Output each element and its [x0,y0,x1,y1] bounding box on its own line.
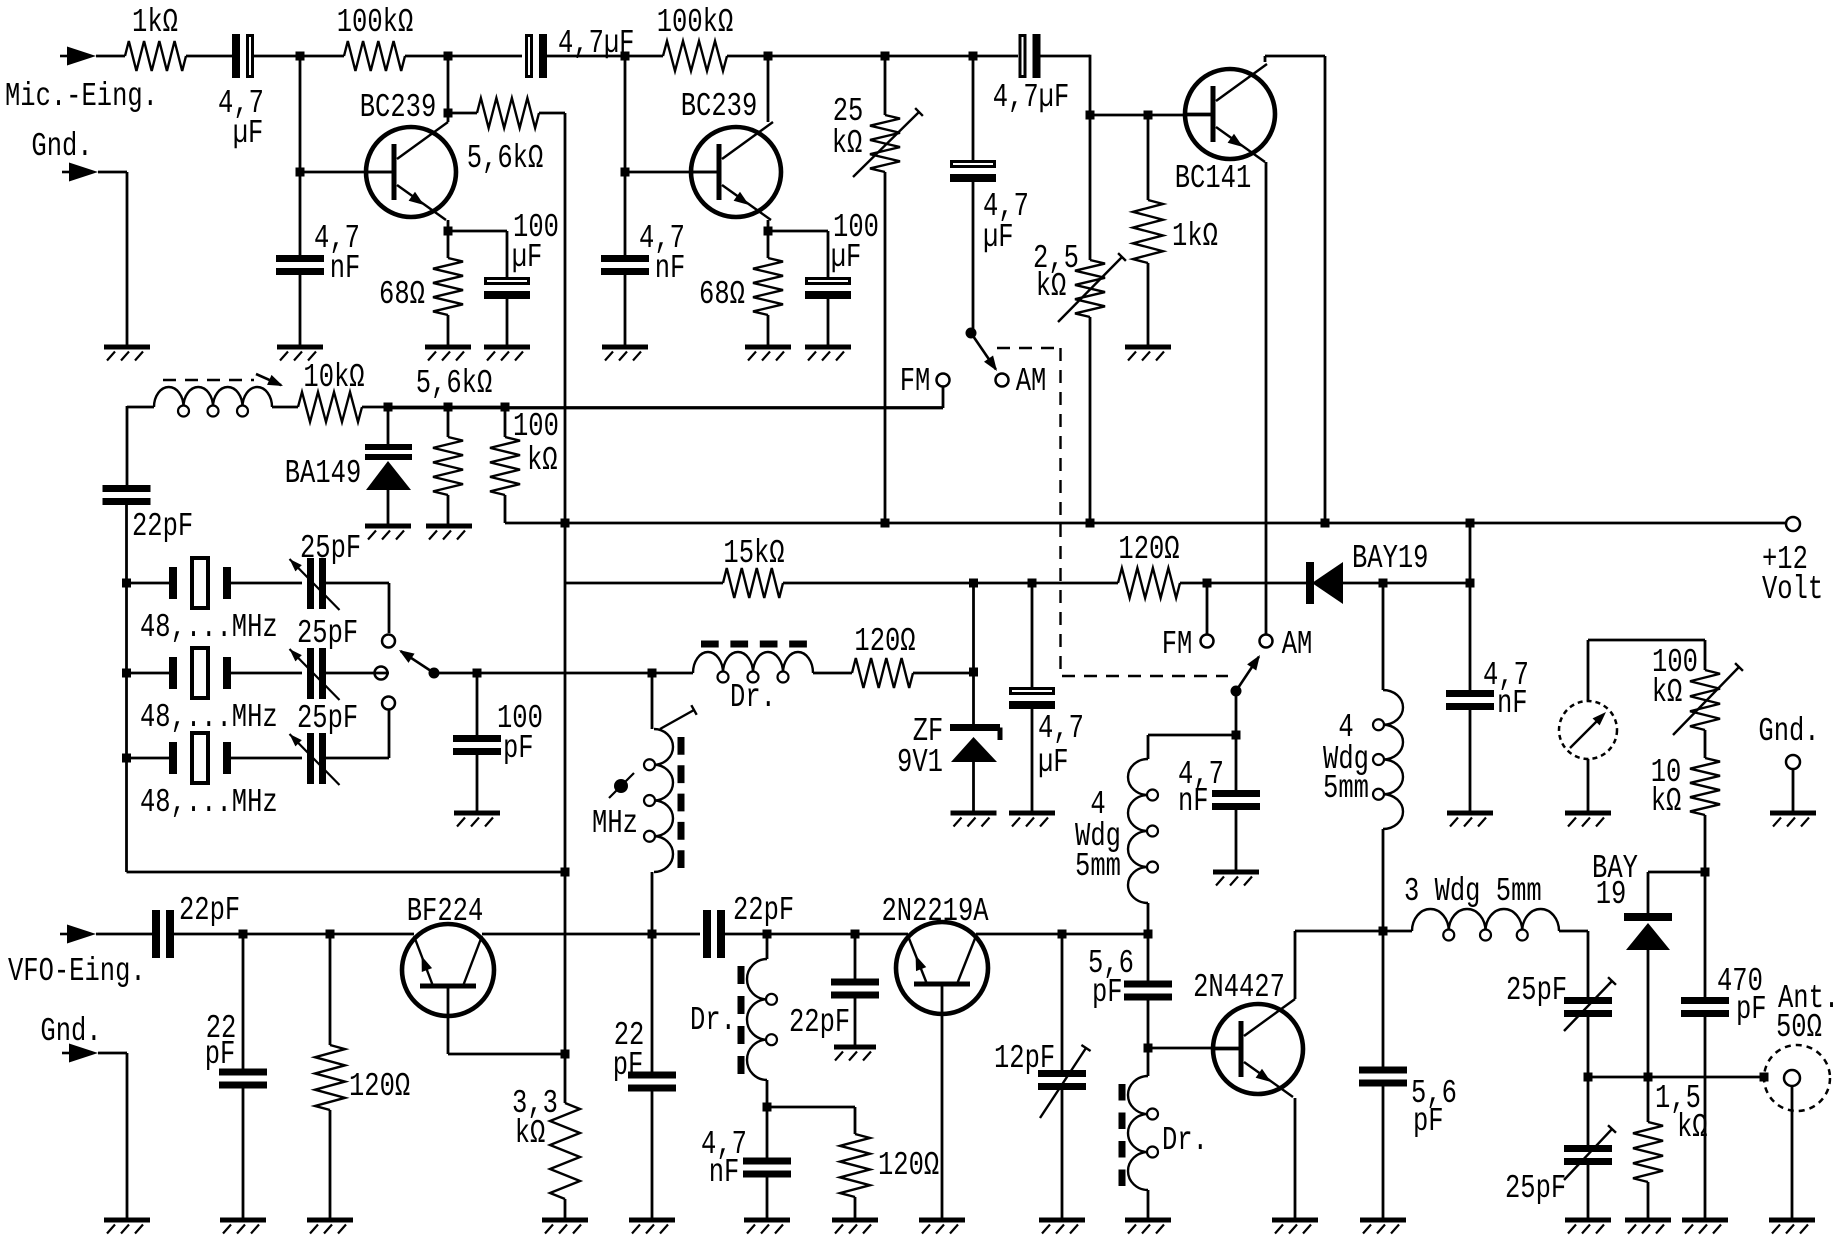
junction zener top [969,579,978,588]
trimmer capacitor 25pF #2 [290,648,340,700]
label 22 pF mixer [613,1016,645,1084]
junction rail pot2.5k [1086,519,1095,528]
label 1kΩ [132,3,178,41]
transistor BC239 second [691,122,781,220]
capacitor 22pF 2219 input [831,979,879,999]
wire crystal row2 mid [231,672,302,675]
label 5,6kΩ mod [416,364,492,402]
wire 4.7nF filter top [1469,523,1472,691]
label 100kΩ second [657,3,733,41]
wire 2219 collector right [976,933,1148,936]
capacitor 4,7µF interstage (electrolytic) [527,34,548,78]
label 68Ω stage2 [699,275,745,313]
wire 120bf bottom [329,1110,332,1220]
capacitor 22pF vfo coupling [152,910,174,958]
wire base line 1 vertical [299,56,302,255]
wire meter top [1588,640,1705,701]
svg-text:100kΩ: 100kΩ [337,3,413,41]
label ZF 9V1 [897,712,943,781]
junction FM contact 2 feed [1203,579,1212,588]
svg-text:19: 19 [1596,875,1627,913]
label 4 Wdg 5mm first [1075,785,1121,885]
label Ant. 50Ω [1776,979,1838,1046]
wire driver feed left [1148,734,1236,737]
wire 4.7nF bf top [766,1107,769,1158]
link dashed ganged to 10k [163,374,283,386]
svg-text:22pF: 22pF [789,1003,850,1041]
wire choke1 to 120 [813,672,852,675]
label FM first [900,362,931,400]
ground 12pF [1039,1220,1085,1234]
label 10 kΩ meter [1651,753,1682,820]
svg-text:pF: pF [1736,990,1767,1028]
ground 25pF output [1565,1220,1611,1234]
wire feedback horizontal [127,871,566,874]
wire FM2 contact up [1206,583,1209,635]
svg-text:5mm: 5mm [1323,769,1369,807]
svg-text:Dr.: Dr. [730,678,776,716]
wire C4.7nF 2 to ground [624,275,627,347]
wire crystal row1 mid [231,582,302,585]
junction antenna [1760,1073,1769,1082]
junction feedback top [561,868,570,877]
wire antenna line [1588,1076,1764,1079]
label AM first [1016,362,1047,400]
svg-text:4,7µF: 4,7µF [993,78,1069,116]
svg-text:Dr.: Dr. [1162,1121,1208,1159]
label 4,7 nF buffer [701,1125,747,1191]
ground 5,6k mod [426,526,472,540]
svg-text:AM: AM [1282,625,1313,663]
svg-text:100: 100 [513,407,559,445]
junction zener node [969,668,978,677]
svg-text:3 Wdg 5mm: 3 Wdg 5mm [1404,872,1542,910]
label 4,7 µF osc supply [1038,709,1084,781]
junction antenna line left [1584,1073,1593,1082]
wire 5.6pF out bottom [1382,1082,1385,1220]
resistor 5,6kΩ collector1 [477,98,539,128]
wire 1k to ground [1147,263,1150,347]
wire BC141 collector up and over [1265,56,1325,523]
wire meter bottom [1587,759,1590,813]
wire zener vertical [972,583,975,724]
label 25pF #3 [297,699,358,737]
ground 22pF shunt [220,1220,266,1234]
wire switch common [434,672,693,675]
svg-text:BC239: BC239 [681,87,757,125]
crystal 48 MHz #2 [169,648,231,698]
label +12 Volt [1762,540,1823,608]
resistor 1,5kΩ detector [1633,1077,1663,1220]
junction 120Ω bf [326,930,335,939]
label 1kΩ BC141 [1172,217,1218,255]
inductor 3 Wdg 5mm [1412,909,1559,940]
label 4,7 µF input [218,84,264,152]
meter RF indicator [1559,701,1617,759]
wire vfo to 22pF [96,933,152,936]
svg-text:5mm: 5mm [1075,847,1121,885]
label 25pF #2 [297,614,358,652]
junction node base divider 1 [296,52,305,61]
wire mod line left corner [127,406,154,409]
trimmer capacitor 25pF output top [1564,977,1616,1031]
label BC239 second [681,87,757,125]
potentiometer 2,5kΩ [1058,253,1126,322]
label 25pF output bottom [1505,1169,1566,1207]
svg-text:22pF: 22pF [733,891,794,929]
wire 4.7uF osc bottom [1031,704,1034,813]
svg-text:nF: nF [709,1153,740,1191]
wire feedback bus [564,872,567,1054]
svg-text:48,...MHz: 48,...MHz [140,783,278,821]
label 22pF oscillator [132,507,193,545]
svg-text:BA149: BA149 [285,454,361,492]
ground 3.3k [542,1220,588,1234]
capacitor 22pF vfo shunt [219,1069,267,1089]
svg-text:BC239: BC239 [360,88,436,126]
wire 68Ω 2 to ground [767,315,770,347]
svg-text:Dr.: Dr. [690,1001,736,1039]
label 10kΩ [303,358,364,396]
ground 1.5k [1625,1220,1671,1234]
wire 22pF to BF224 [174,933,414,936]
wire collector 1 up [447,56,450,122]
wire 5.6pF top [1147,934,1150,981]
contact FM second [1201,635,1214,648]
wire diode to filter [1383,582,1470,585]
wire 3wdg to trimmers [1559,931,1588,998]
ground 120bf [307,1220,353,1234]
junction mod 100k [501,403,510,412]
svg-text:pF: pF [503,729,534,767]
wire MHz coil bottom [651,872,654,933]
ground BA149 [365,526,411,540]
resistor 10kΩ meter [1690,758,1720,815]
contact FM first [937,374,950,387]
junction 2N4427 base node [1144,1044,1153,1053]
label 100kΩ first [337,3,413,41]
wire BC141 emitter down [1265,162,1268,635]
junction base 2 [621,168,630,177]
wire pot to 10k [1704,730,1707,758]
inductor MHz tuned coil [644,729,681,872]
label 120Ω osc supply [854,622,915,660]
svg-text:BAY19: BAY19 [1352,539,1428,577]
switch arm FM/AM first [966,328,998,372]
svg-text:68Ω: 68Ω [699,275,745,313]
svg-text:48,...MHz: 48,...MHz [140,698,278,736]
trimmer capacitor 12pF [1038,1045,1091,1118]
capacitor 4,7nF stage2 [601,255,649,275]
wire 470pF down [1704,1013,1707,1220]
label 120Ω bf [349,1067,410,1105]
svg-text:µF: µF [983,218,1014,256]
label 4,7 nF stage2 [639,219,685,287]
label Dr. choke 1 [730,678,776,716]
wire crystal row2 right [326,672,389,675]
resistor 15kΩ [723,568,783,598]
contact crystal select 2 [375,667,388,680]
junction MHz coil tap [648,669,657,678]
junction emitter 2 [764,227,773,236]
contact crystal select 3 [382,697,395,710]
resistor 100kΩ first [344,41,405,71]
wire emitter 1 to bypass cap [448,231,507,279]
svg-text:1kΩ: 1kΩ [1172,217,1218,255]
wire 4427 emitter [1294,1098,1297,1220]
wire emitter 2 to bypass cap [768,231,828,279]
svg-text:4,7: 4,7 [1038,709,1084,747]
wire +12V rail [505,522,1786,525]
trimmer capacitor 25pF #3 [290,733,340,785]
capacitor 4,7nF driver [1212,790,1260,810]
wire pot 25k top [884,56,887,115]
resistor 120Ω buffer [840,1107,870,1220]
label 100 kΩ mod [513,407,559,479]
junction pot 25k top [881,52,890,61]
svg-text:FM: FM [1162,625,1193,663]
junction collector resistor tap [444,109,453,118]
svg-text:25pF: 25pF [300,529,361,567]
wire 22pF 2219 bottom [854,994,857,1046]
diode BAY 19 detector [1624,913,1672,1077]
terminal Gnd right [1786,755,1800,769]
wire 120Ω to diode [1180,582,1306,585]
svg-text:kΩ: kΩ [1036,267,1067,305]
diode zener ZF 9V1 [950,728,1000,814]
junction base BC141 feed [1086,111,1095,120]
svg-text:µF: µF [831,238,862,276]
svg-text:22pF: 22pF [132,507,193,545]
junction collector tap 2 [764,52,773,61]
wire choke2 to 120 [767,1106,855,1109]
transistor 2N4427 [1213,999,1303,1097]
label VFO-Eing. [8,952,146,990]
label Gnd. right [1758,712,1819,750]
ground zener [951,813,997,827]
wire C4.7nF to ground 1 [299,275,302,347]
switch arm FM/AM second [1231,655,1261,697]
svg-text:10kΩ: 10kΩ [303,358,364,396]
capacitor 100µF stage2 (electrolytic) [805,279,851,300]
capacitor 470pF [1681,997,1729,1017]
wire base line 2 vertical [624,56,627,255]
wire 4427 collector [1295,931,1383,999]
label 5,6 pF coupling [1088,944,1134,1011]
svg-text:MHz: MHz [592,804,638,842]
transistor BC141 [1185,64,1275,162]
svg-text:68Ω: 68Ω [379,275,425,313]
label BF224 [407,892,483,930]
svg-text:pF: pF [205,1035,236,1073]
inductor 4 Wdg 5mm second [1373,690,1403,829]
label 5,6 pF output [1411,1074,1457,1140]
junction 1k tap [1144,111,1153,120]
capacitor 4,7µF modulator (electrolytic) [950,162,996,183]
junction rail 5.6k feed [561,519,570,528]
resistor 10kΩ [298,392,362,422]
ground 68Ω stage2 [745,347,791,361]
wire row3 to contact [388,711,391,759]
svg-text:2N4427: 2N4427 [1193,968,1285,1006]
wire gnd mic [98,172,127,347]
wire 4.7uF osc top [1031,583,1034,688]
wire choke2 top [766,934,769,959]
wire R 100k second to C 4.7uF third [727,55,1018,58]
svg-text:50Ω: 50Ω [1776,1008,1822,1046]
wire coil2 bottom [1382,829,1385,933]
svg-text:100kΩ: 100kΩ [657,3,733,41]
junction 4.7uF osc top [1028,579,1037,588]
svg-text:22pF: 22pF [179,891,240,929]
svg-text:25pF: 25pF [297,699,358,737]
wire FM contact to modulation line [388,387,943,409]
wire crystal row1 left [127,582,170,585]
svg-text:12pF: 12pF [994,1039,1055,1077]
ground meter [1565,813,1611,827]
svg-text:FM: FM [900,362,931,400]
inductor Dr. choke 1 [693,644,813,683]
wire 10k to junction [362,406,505,409]
label 22pF interstage bottom [733,891,794,929]
wire corner to pot 2.5k [1089,115,1092,260]
label Dr. choke 2 [690,1001,736,1039]
svg-text:Volt: Volt [1762,570,1823,608]
ground 22pF 2219 small [834,1047,876,1061]
wire BF224 base down [448,986,565,1054]
link dashed switch coupling [997,348,1228,676]
wire base 4427 [1148,1047,1241,1050]
label 100 kΩ meter [1652,643,1698,711]
label 1,5 kΩ [1655,1079,1708,1146]
capacitor 4,7µF third (electrolytic) [1020,34,1041,78]
svg-text:Gnd.: Gnd. [31,127,92,165]
svg-text:Gnd.: Gnd. [1758,712,1819,750]
wire 100µF 2 to ground [827,296,830,347]
svg-text:AM: AM [1016,362,1047,400]
junction detector tap antenna [1644,1073,1653,1082]
label 4,7µF interstage [558,24,634,62]
capacitor 100pF [453,735,501,755]
junction 12pF tap [1058,930,1067,939]
label 48 MHz #1 [140,608,278,646]
svg-text:kΩ: kΩ [1677,1108,1708,1146]
wire osc left bus [125,501,128,872]
svg-text:kΩ: kΩ [1652,673,1683,711]
wire 4.7nF filter bottom [1469,706,1472,813]
ground 4.7uF osc [1009,813,1055,827]
ground stage1 base cap [277,347,323,361]
ground stage2 base cap [602,347,648,361]
svg-text:µF: µF [233,114,264,152]
wire gnd right [1792,769,1795,813]
label Gnd. vfo [40,1012,101,1050]
junction detector out [1644,1073,1653,1082]
junction coil 4wdg2 top [1379,579,1388,588]
label 15kΩ [723,534,784,572]
capacitor 4,7nF rail filter [1446,690,1494,710]
wire R100k to C 4.7uF interstage [405,55,522,58]
wire mod line vertical [126,406,129,488]
resistor 100kΩ mod [490,407,520,523]
junction node base divider 2 [621,52,630,61]
wire base BC141 [1090,114,1213,117]
label 4 Wdg 5mm second [1323,708,1369,807]
wire 68Ω to ground [447,315,450,347]
wire crystal row1 right [326,582,389,585]
wire 100pF bottom [476,751,479,813]
trimmer capacitor 25pF #1 [290,558,340,610]
svg-text:BC141: BC141 [1175,159,1251,197]
resistor 1kΩ [125,41,186,71]
junction 100pF tap [473,669,482,678]
wire crystal row2 left [127,672,170,675]
terminal Gnd mic [62,163,98,182]
junction detector node [1701,868,1710,877]
svg-text:25pF: 25pF [1505,1169,1566,1207]
wire Dr3 bottom [1147,1190,1150,1220]
svg-text:15kΩ: 15kΩ [723,534,784,572]
junction rail BC141 collector [1321,519,1330,528]
wire 15k to zener [783,582,1118,585]
wire 22pF shunt bottom [242,1084,245,1220]
svg-text:nF: nF [330,249,361,287]
junction crystal row3 [122,754,131,763]
label 4,7µF third [993,78,1069,116]
wire 22pF 2219 top [854,934,857,979]
wire 5.6pF bottom [1147,996,1150,1048]
wire crystal row3 right [326,757,389,760]
input terminal Mic.-Eing. [60,47,96,66]
junction multiplier node [1144,930,1153,939]
svg-text:Mic.-Eing.: Mic.-Eing. [5,77,158,115]
wire arm2 down [1235,691,1238,735]
ground 22pF mixer [629,1220,675,1234]
wire collector 1 to 5.6k [448,112,477,115]
label BA149 [285,454,361,492]
capacitor 4,7nF stage1 [276,255,324,275]
junction mixer node [648,930,657,939]
svg-text:pF: pF [613,1046,644,1084]
wire 120bf top [329,934,332,1045]
junction 22pF shunt [239,930,248,939]
svg-text:kΩ: kΩ [527,441,558,479]
wire 12pF top [1061,934,1064,1070]
label 22pF vfo [179,891,240,929]
junction emitter 1 [444,227,453,236]
junction base 1 [296,168,305,177]
wire 120 to zener node [913,672,974,675]
wire 22pF shunt top [242,934,245,1069]
crystal 48 MHz #1 [169,558,231,608]
svg-text:5,6kΩ: 5,6kΩ [416,364,492,402]
wire 100µF to ground [506,296,509,347]
junction collector tap 1 [444,52,453,61]
crystal 48 MHz #3 [169,733,231,783]
core symbol MHz [609,773,634,798]
diode BA149 varactor [365,407,412,524]
svg-text:kΩ: kΩ [832,124,863,162]
svg-text:nF: nF [655,249,686,287]
label 4,7 µF modulator [983,187,1029,256]
ground 470pF [1682,1220,1728,1234]
wire 25pF bottom gnd [1587,1161,1590,1220]
terminal Gnd vfo [62,1044,98,1063]
inductor speech choke [154,387,272,417]
resistor 120Ω FM set [1118,568,1180,598]
svg-text:BF224: BF224 [407,892,483,930]
capacitor 4,7nF buffer [743,1158,791,1178]
